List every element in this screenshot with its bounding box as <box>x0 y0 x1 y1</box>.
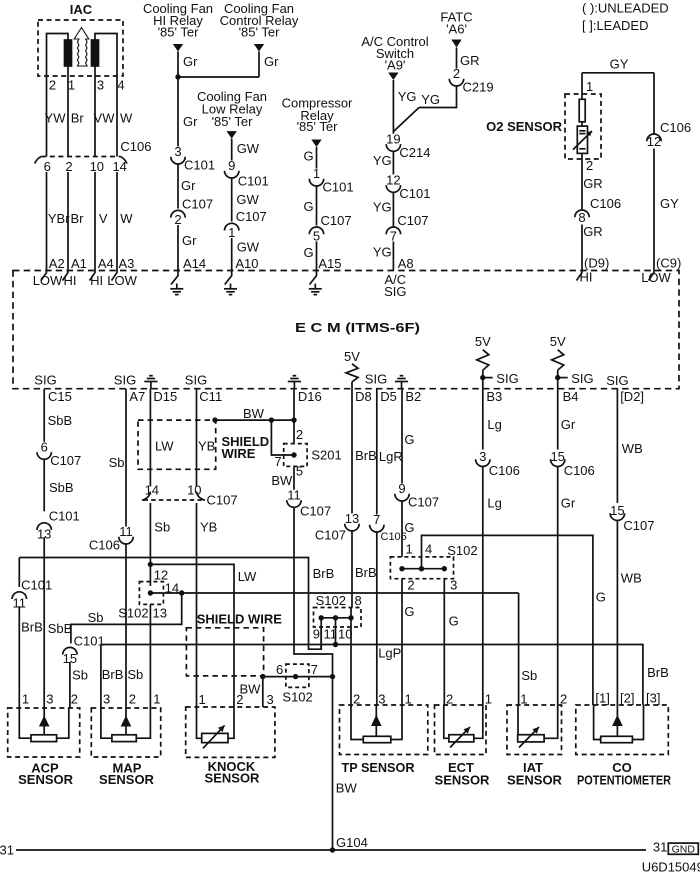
svg-text:[ ]:LEADED: [ ]:LEADED <box>582 18 648 33</box>
svg-text:SIG: SIG <box>365 371 387 386</box>
svg-text:C101: C101 <box>21 578 52 593</box>
svg-text:G: G <box>303 149 313 164</box>
svg-text:BrB: BrB <box>21 619 43 634</box>
svg-text:5V: 5V <box>550 334 566 349</box>
svg-text:31: 31 <box>653 840 667 855</box>
svg-text:1: 1 <box>199 692 206 707</box>
svg-text:C101: C101 <box>323 180 354 195</box>
svg-text:SbB: SbB <box>49 480 74 495</box>
svg-text:2: 2 <box>586 158 593 173</box>
svg-text:'85' Ter: '85' Ter <box>212 114 254 129</box>
svg-text:10: 10 <box>90 159 104 174</box>
svg-text:V: V <box>99 211 108 226</box>
svg-text:Lg: Lg <box>487 496 501 511</box>
svg-text:[2]: [2] <box>620 691 634 706</box>
svg-text:BrB: BrB <box>102 667 124 682</box>
svg-text:GR: GR <box>583 176 603 191</box>
svg-text:G: G <box>449 614 459 629</box>
svg-text:15: 15 <box>610 503 624 518</box>
svg-text:1: 1 <box>153 692 160 707</box>
svg-text:SIG: SIG <box>185 373 207 388</box>
svg-text:C101: C101 <box>74 633 105 648</box>
svg-text:GR: GR <box>583 224 603 239</box>
svg-text:C101: C101 <box>184 158 215 173</box>
svg-text:WB: WB <box>621 571 642 586</box>
svg-text:A2: A2 <box>49 256 65 271</box>
svg-text:GY: GY <box>610 57 629 72</box>
svg-text:7: 7 <box>274 454 281 469</box>
svg-text:LOW: LOW <box>33 273 63 288</box>
svg-text:E C M (ITMS-6F): E C M (ITMS-6F) <box>295 320 420 335</box>
svg-text:LgR: LgR <box>379 449 403 464</box>
svg-text:Gr: Gr <box>264 54 279 69</box>
svg-text:C107: C107 <box>321 213 352 228</box>
svg-text:C107: C107 <box>182 196 213 211</box>
svg-text:S102: S102 <box>118 605 148 620</box>
svg-text:BW: BW <box>336 781 358 796</box>
svg-text:9: 9 <box>313 627 320 642</box>
svg-text:GR: GR <box>460 53 480 68</box>
svg-text:9: 9 <box>228 158 235 173</box>
svg-text:SHIELD WIRE: SHIELD WIRE <box>197 611 283 626</box>
svg-text:4: 4 <box>425 542 432 557</box>
svg-text:SIG: SIG <box>114 373 136 388</box>
svg-text:15: 15 <box>550 449 564 464</box>
svg-text:14: 14 <box>145 483 159 498</box>
svg-text:GY: GY <box>660 196 679 211</box>
svg-text:6: 6 <box>41 439 48 454</box>
svg-text:W: W <box>120 211 133 226</box>
svg-text:3: 3 <box>450 578 457 593</box>
svg-text:S201: S201 <box>311 447 341 462</box>
svg-text:[1]: [1] <box>595 691 609 706</box>
svg-text:7: 7 <box>311 662 318 677</box>
svg-text:Sb: Sb <box>72 668 88 683</box>
svg-text:G104: G104 <box>336 835 368 850</box>
svg-text:13: 13 <box>345 511 359 526</box>
svg-text:11: 11 <box>119 524 133 539</box>
svg-text:G: G <box>404 432 414 447</box>
svg-text:6: 6 <box>276 662 283 677</box>
svg-text:BrB: BrB <box>355 448 377 463</box>
svg-text:LgP: LgP <box>378 645 401 660</box>
svg-text:G: G <box>404 520 414 535</box>
svg-text:'85' Ter: '85' Ter <box>158 25 200 40</box>
svg-text:S102: S102 <box>316 593 346 608</box>
svg-text:1: 1 <box>520 692 527 707</box>
svg-text:YG: YG <box>373 200 392 215</box>
svg-text:GW: GW <box>236 192 259 207</box>
svg-text:SENSOR: SENSOR <box>435 772 491 787</box>
svg-text:BW: BW <box>243 406 265 421</box>
svg-text:G: G <box>303 199 313 214</box>
svg-text:YG: YG <box>421 92 440 107</box>
svg-text:[D2]: [D2] <box>620 389 644 404</box>
svg-text:10: 10 <box>338 627 352 642</box>
svg-text:SIG: SIG <box>384 284 406 299</box>
svg-text:A7: A7 <box>129 389 145 404</box>
svg-text:3: 3 <box>46 692 53 707</box>
svg-text:8: 8 <box>355 593 362 608</box>
svg-text:7: 7 <box>390 229 397 244</box>
svg-text:HI: HI <box>64 273 77 288</box>
svg-text:G: G <box>404 604 414 619</box>
svg-text:Sb: Sb <box>127 667 143 682</box>
svg-text:SENSOR: SENSOR <box>99 772 155 787</box>
svg-text:14: 14 <box>112 159 126 174</box>
svg-text:5V: 5V <box>344 349 360 364</box>
svg-text:POTENTIOMETER: POTENTIOMETER <box>577 772 672 787</box>
svg-text:C101: C101 <box>238 174 269 189</box>
svg-text:3: 3 <box>103 692 110 707</box>
svg-text:LOW: LOW <box>107 273 137 288</box>
svg-text:C106: C106 <box>660 120 691 135</box>
svg-text:A1: A1 <box>71 256 87 271</box>
svg-text:1: 1 <box>586 79 593 94</box>
svg-text:Sb: Sb <box>109 455 125 470</box>
svg-text:'A6': 'A6' <box>446 22 467 37</box>
svg-text:C107: C107 <box>50 453 81 468</box>
svg-text:14: 14 <box>165 580 179 595</box>
svg-text:Gr: Gr <box>181 178 196 193</box>
svg-text:B2: B2 <box>405 389 421 404</box>
svg-text:A4: A4 <box>98 256 114 271</box>
svg-text:S102: S102 <box>447 543 477 558</box>
svg-text:31: 31 <box>0 843 14 858</box>
svg-text:D16: D16 <box>298 389 322 404</box>
svg-text:G: G <box>303 245 313 260</box>
svg-text:C107: C107 <box>236 209 267 224</box>
svg-text:D15: D15 <box>153 389 177 404</box>
svg-text:VW: VW <box>94 111 116 126</box>
svg-text:GW: GW <box>237 240 260 255</box>
svg-text:2: 2 <box>453 66 460 81</box>
svg-text:3: 3 <box>479 449 486 464</box>
svg-text:1: 1 <box>313 166 320 181</box>
svg-text:[3]: [3] <box>646 691 660 706</box>
svg-text:SbB: SbB <box>48 413 73 428</box>
svg-text:A14: A14 <box>183 256 206 271</box>
svg-text:1: 1 <box>228 225 235 240</box>
svg-text:SIG: SIG <box>496 371 518 386</box>
svg-text:YG: YG <box>373 245 392 260</box>
svg-text:SENSOR: SENSOR <box>18 772 74 787</box>
svg-text:W: W <box>120 111 133 126</box>
svg-text:A3: A3 <box>119 256 135 271</box>
svg-text:Gr: Gr <box>183 114 198 129</box>
svg-text:C107: C107 <box>207 493 238 508</box>
svg-text:C101: C101 <box>399 186 430 201</box>
svg-text:C107: C107 <box>397 213 428 228</box>
svg-text:LOW: LOW <box>641 270 671 285</box>
svg-text:A8: A8 <box>398 256 414 271</box>
svg-text:(C9): (C9) <box>656 256 681 271</box>
svg-text:WB: WB <box>622 441 643 456</box>
svg-text:9: 9 <box>398 481 405 496</box>
svg-text:'85' Ter: '85' Ter <box>239 25 281 40</box>
svg-text:Gr: Gr <box>561 417 576 432</box>
svg-text:Gr: Gr <box>183 54 198 69</box>
svg-text:2: 2 <box>236 692 243 707</box>
svg-text:B4: B4 <box>563 389 579 404</box>
svg-text:13: 13 <box>153 605 167 620</box>
svg-text:2: 2 <box>49 78 56 93</box>
svg-text:11: 11 <box>287 487 301 502</box>
svg-text:Gr: Gr <box>561 496 576 511</box>
svg-text:2: 2 <box>71 692 78 707</box>
svg-text:BrB: BrB <box>313 566 335 581</box>
svg-text:2: 2 <box>407 578 414 593</box>
svg-text:C106: C106 <box>489 463 520 478</box>
svg-text:SbB: SbB <box>48 621 73 636</box>
svg-text:1: 1 <box>406 542 413 557</box>
svg-text:U6D15049: U6D15049 <box>642 860 700 875</box>
svg-text:Br: Br <box>71 211 85 226</box>
svg-text:A10: A10 <box>235 256 258 271</box>
svg-text:LW: LW <box>155 438 174 453</box>
svg-text:7: 7 <box>373 512 380 527</box>
svg-text:3: 3 <box>97 78 104 93</box>
svg-text:(D9): (D9) <box>584 256 609 271</box>
svg-text:2: 2 <box>129 692 136 707</box>
svg-text:4: 4 <box>117 78 124 93</box>
svg-text:C106: C106 <box>590 196 621 211</box>
svg-text:1: 1 <box>68 78 75 93</box>
svg-text:2: 2 <box>174 212 181 227</box>
svg-text:YBr: YBr <box>48 211 70 226</box>
svg-text:Lg: Lg <box>487 417 501 432</box>
svg-text:6: 6 <box>44 159 51 174</box>
svg-text:YG: YG <box>398 89 417 104</box>
svg-text:GW: GW <box>237 141 260 156</box>
svg-text:2: 2 <box>65 159 72 174</box>
svg-text:'85' Ter: '85' Ter <box>297 119 339 134</box>
svg-text:BrB: BrB <box>355 565 377 580</box>
svg-text:5: 5 <box>313 229 320 244</box>
svg-text:C107: C107 <box>623 518 654 533</box>
svg-text:SIG: SIG <box>606 373 628 388</box>
svg-text:'A9': 'A9' <box>385 58 406 73</box>
svg-text:D5: D5 <box>380 389 397 404</box>
svg-text:A15: A15 <box>318 256 341 271</box>
svg-text:C11: C11 <box>199 389 222 404</box>
svg-text:C106: C106 <box>564 463 595 478</box>
svg-text:C15: C15 <box>48 389 72 404</box>
svg-text:3: 3 <box>267 692 274 707</box>
svg-text:SIG: SIG <box>571 371 593 386</box>
svg-text:BW: BW <box>271 473 293 488</box>
svg-text:YG: YG <box>373 153 392 168</box>
svg-text:C101: C101 <box>49 509 80 524</box>
svg-text:WIRE: WIRE <box>222 446 256 461</box>
svg-text:YW: YW <box>45 111 67 126</box>
svg-text:C219: C219 <box>463 80 494 95</box>
svg-text:11: 11 <box>324 627 338 642</box>
svg-text:Sb: Sb <box>521 668 537 683</box>
svg-text:Gr: Gr <box>182 233 197 248</box>
svg-text:5V: 5V <box>475 334 491 349</box>
svg-text:5: 5 <box>296 464 303 479</box>
svg-text:Br: Br <box>71 111 85 126</box>
svg-text:12: 12 <box>647 134 661 149</box>
svg-text:SENSOR: SENSOR <box>205 771 261 786</box>
svg-text:HI: HI <box>90 273 103 288</box>
svg-text:2: 2 <box>296 427 303 442</box>
svg-text:C106: C106 <box>89 538 120 553</box>
svg-text:BrB: BrB <box>647 665 669 680</box>
svg-text:1: 1 <box>485 692 492 707</box>
svg-text:IAC: IAC <box>70 2 93 17</box>
svg-text:8: 8 <box>578 210 585 225</box>
svg-text:SIG: SIG <box>34 373 56 388</box>
svg-text:C107: C107 <box>408 495 439 510</box>
svg-text:3: 3 <box>174 144 181 159</box>
svg-text:C107: C107 <box>315 527 346 542</box>
svg-text:C106: C106 <box>381 531 407 543</box>
svg-text:SENSOR: SENSOR <box>507 772 563 787</box>
svg-text:( ):UNLEADED: ( ):UNLEADED <box>582 1 669 16</box>
svg-text:Sb: Sb <box>154 520 170 535</box>
svg-text:1: 1 <box>22 692 29 707</box>
svg-text:B3: B3 <box>486 389 502 404</box>
svg-text:Sb: Sb <box>88 610 104 625</box>
svg-text:C106: C106 <box>120 139 151 154</box>
svg-text:GND: GND <box>672 843 696 855</box>
svg-text:D8: D8 <box>355 389 372 404</box>
svg-text:TP SENSOR: TP SENSOR <box>342 760 416 775</box>
svg-text:YB: YB <box>198 438 215 453</box>
svg-text:S102: S102 <box>282 689 312 704</box>
svg-text:G: G <box>596 589 606 604</box>
svg-text:O2 SENSOR: O2 SENSOR <box>486 119 562 134</box>
svg-text:10: 10 <box>187 483 201 498</box>
svg-text:YB: YB <box>200 520 217 535</box>
svg-text:C214: C214 <box>399 145 430 160</box>
svg-text:C107: C107 <box>300 503 331 518</box>
svg-text:LW: LW <box>238 569 257 584</box>
